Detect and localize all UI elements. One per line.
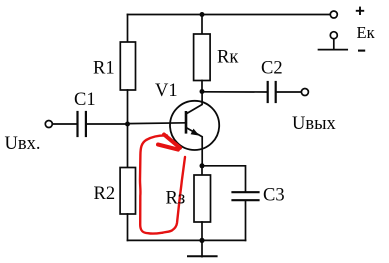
ground xyxy=(188,240,217,256)
svg-text:C1: C1 xyxy=(74,90,96,110)
svg-text:Uвых: Uвых xyxy=(292,114,337,134)
label plus xyxy=(356,7,364,15)
svg-text:Uвх.: Uвх. xyxy=(5,134,41,154)
svg-text:Rк: Rк xyxy=(217,47,238,67)
capacitor C1 xyxy=(45,112,127,136)
node: ground junction xyxy=(199,238,204,243)
wire: emitter to C3 top xyxy=(202,166,246,191)
svg-text:C3: C3 xyxy=(263,186,285,206)
svg-text:V1: V1 xyxy=(155,81,178,101)
node: emitter xyxy=(200,163,205,168)
svg-text:C2: C2 xyxy=(261,59,283,79)
svg-text:Ек: Ек xyxy=(357,23,376,42)
capacitor C2 xyxy=(268,82,309,102)
svg-text:Rз: Rз xyxy=(166,189,186,209)
node: base junction xyxy=(125,122,130,127)
svg-text:R2: R2 xyxy=(94,184,116,204)
svg-text:R1: R1 xyxy=(93,59,115,79)
resistor R1 xyxy=(120,15,135,125)
resistor R2 xyxy=(120,124,135,240)
terminal: Ek + xyxy=(330,11,337,18)
wire: base xyxy=(128,122,187,125)
label minus xyxy=(358,50,365,52)
wire: top supply rail xyxy=(128,14,330,16)
resistor Rk xyxy=(194,15,211,92)
wire: collector to C2 xyxy=(202,91,267,93)
terminal: Ek - with chassis bar xyxy=(319,32,348,50)
resistor Rz xyxy=(194,166,211,241)
node: collector xyxy=(200,89,205,94)
capacitor C3 xyxy=(233,192,259,240)
transistor V1 xyxy=(170,92,219,166)
node: top rail junction xyxy=(200,12,205,17)
wire: bottom rail xyxy=(128,239,246,241)
annotation: red arrow to emitter xyxy=(147,135,181,150)
annotation: red loop around Rz xyxy=(140,140,185,234)
